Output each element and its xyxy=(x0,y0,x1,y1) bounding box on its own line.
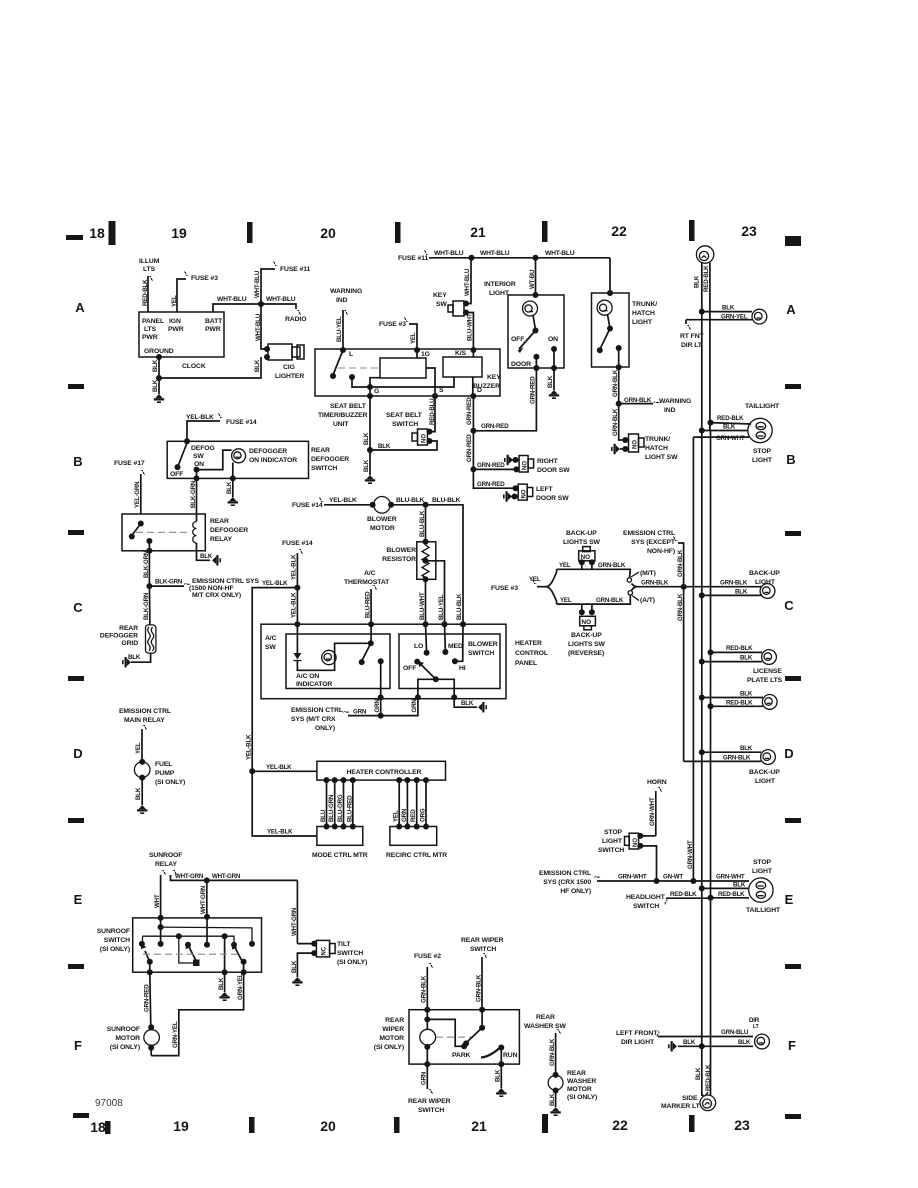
svg-text:LIGHT: LIGHT xyxy=(632,319,653,326)
svg-text:WHT-GRN: WHT-GRN xyxy=(175,873,204,880)
svg-text:(SI ONLY): (SI ONLY) xyxy=(337,959,367,966)
svg-text:DEFOG: DEFOG xyxy=(191,445,215,452)
svg-text:LIGHTS SW: LIGHTS SW xyxy=(568,641,606,648)
svg-text:HORN: HORN xyxy=(647,779,667,786)
svg-text:C: C xyxy=(73,600,83,615)
svg-text:OFF: OFF xyxy=(170,471,183,478)
svg-text:PLATE LTS: PLATE LTS xyxy=(747,677,783,684)
svg-text:LIGHT: LIGHT xyxy=(755,579,776,586)
svg-text:REAR: REAR xyxy=(210,518,229,525)
svg-text:BLK: BLK xyxy=(733,881,746,888)
svg-text:SIDE: SIDE xyxy=(682,1095,698,1102)
svg-text:LIGHT: LIGHT xyxy=(752,868,773,875)
svg-text:LIGHT SW: LIGHT SW xyxy=(645,454,678,461)
svg-text:PUMP: PUMP xyxy=(155,770,175,777)
svg-text:REAR: REAR xyxy=(567,1070,586,1077)
svg-text:SYS (CRX 1500: SYS (CRX 1500 xyxy=(543,879,591,886)
svg-text:PANEL: PANEL xyxy=(142,318,164,325)
svg-text:FUSE #3: FUSE #3 xyxy=(191,275,218,282)
svg-text:BACK-UP: BACK-UP xyxy=(566,530,597,537)
svg-text:RED-BLK: RED-BLK xyxy=(705,1064,712,1091)
svg-text:97008: 97008 xyxy=(95,1098,123,1109)
svg-text:FUSE #11: FUSE #11 xyxy=(398,255,429,262)
svg-text:RECIRC CTRL MTR: RECIRC CTRL MTR xyxy=(386,852,447,859)
svg-text:(SI ONLY): (SI ONLY) xyxy=(374,1044,404,1051)
svg-text:19: 19 xyxy=(171,225,187,241)
svg-text:RUN: RUN xyxy=(503,1052,518,1059)
svg-text:SWITCH: SWITCH xyxy=(392,421,418,428)
svg-text:L: L xyxy=(349,351,353,358)
svg-text:MAIN RELAY: MAIN RELAY xyxy=(124,717,165,724)
svg-text:YEL-GRN: YEL-GRN xyxy=(134,481,141,508)
svg-text:BLU-BLK: BLU-BLK xyxy=(456,593,463,620)
svg-text:GRN-WHT: GRN-WHT xyxy=(618,874,647,881)
svg-text:TAILLIGHT: TAILLIGHT xyxy=(745,403,780,410)
svg-text:GRN-RED: GRN-RED xyxy=(466,397,473,425)
svg-text:WASHER: WASHER xyxy=(567,1078,596,1085)
svg-text:DOOR: DOOR xyxy=(511,361,531,368)
svg-text:LIGHTER: LIGHTER xyxy=(275,373,304,380)
svg-text:IND: IND xyxy=(664,407,676,414)
svg-text:LEFT: LEFT xyxy=(536,486,554,493)
svg-text:SWITCH: SWITCH xyxy=(468,650,494,657)
svg-text:21: 21 xyxy=(470,224,486,240)
svg-text:FUSE #17: FUSE #17 xyxy=(114,460,145,467)
svg-text:STOP: STOP xyxy=(753,859,772,866)
svg-text:B: B xyxy=(786,452,795,467)
svg-text:ORG: ORG xyxy=(420,808,427,822)
svg-text:DOOR SW: DOOR SW xyxy=(537,467,570,474)
svg-text:RED-BLK: RED-BLK xyxy=(726,645,753,652)
svg-text:BLK: BLK xyxy=(695,1067,702,1080)
svg-text:BLU-YEL: BLU-YEL xyxy=(438,594,445,620)
svg-text:DOOR SW: DOOR SW xyxy=(536,495,569,502)
svg-text:NO: NO xyxy=(523,461,529,470)
svg-text:YEL: YEL xyxy=(560,597,572,604)
svg-text:B: B xyxy=(73,454,82,469)
svg-text:WHT-BLU: WHT-BLU xyxy=(254,270,261,298)
svg-text:D: D xyxy=(477,387,482,394)
svg-text:F: F xyxy=(74,1038,82,1053)
svg-text:GRN: GRN xyxy=(401,808,408,822)
svg-text:BLK: BLK xyxy=(738,1039,751,1046)
svg-text:20: 20 xyxy=(320,1118,336,1134)
svg-text:EMISSION CTRL: EMISSION CTRL xyxy=(291,707,343,714)
svg-text:HEATER: HEATER xyxy=(515,640,542,647)
svg-text:REAR: REAR xyxy=(119,625,138,632)
svg-text:MOTOR: MOTOR xyxy=(115,1035,140,1042)
svg-text:SW: SW xyxy=(436,301,447,308)
svg-text:BLK: BLK xyxy=(683,1039,696,1046)
svg-text:BLU-WHT: BLU-WHT xyxy=(467,313,474,341)
svg-text:HEADLIGHT: HEADLIGHT xyxy=(626,894,666,901)
svg-text:FUSE #14: FUSE #14 xyxy=(292,502,323,509)
svg-text:REAR WIPER: REAR WIPER xyxy=(461,937,504,944)
svg-text:GRN-YEL: GRN-YEL xyxy=(172,1021,179,1048)
svg-text:CONTROL: CONTROL xyxy=(515,650,548,657)
svg-text:KEY: KEY xyxy=(433,292,447,299)
svg-text:BLOWER: BLOWER xyxy=(367,516,397,523)
svg-text:WHT-GRN: WHT-GRN xyxy=(200,885,207,914)
svg-text:GRID: GRID xyxy=(121,640,138,647)
svg-text:BLU-BLK: BLU-BLK xyxy=(419,510,426,537)
svg-text:(SI ONLY): (SI ONLY) xyxy=(110,1044,140,1051)
svg-text:A: A xyxy=(75,300,85,315)
svg-text:BLOWER: BLOWER xyxy=(468,641,498,648)
svg-text:22: 22 xyxy=(611,223,627,239)
svg-text:RT FNT: RT FNT xyxy=(680,333,705,340)
svg-text:GRN-BLK: GRN-BLK xyxy=(677,549,684,577)
svg-text:WHT-BLU: WHT-BLU xyxy=(255,313,262,341)
svg-text:SYS (M/T CRX: SYS (M/T CRX xyxy=(291,716,336,723)
svg-text:HEATER CONTROLLER: HEATER CONTROLLER xyxy=(347,769,422,776)
svg-text:HI: HI xyxy=(459,665,466,672)
svg-text:22: 22 xyxy=(612,1117,628,1133)
svg-text:GRN-BLK: GRN-BLK xyxy=(612,369,619,397)
svg-text:FUSE #2: FUSE #2 xyxy=(414,953,441,960)
svg-text:GRN-RED: GRN-RED xyxy=(144,984,151,1012)
svg-text:WHT-GRN: WHT-GRN xyxy=(212,873,241,880)
svg-text:LIGHTS SW: LIGHTS SW xyxy=(563,539,601,546)
svg-text:BLU-ORG: BLU-ORG xyxy=(337,794,344,822)
svg-text:RELAY: RELAY xyxy=(155,861,177,868)
svg-text:IND: IND xyxy=(336,297,348,304)
svg-text:SWITCH: SWITCH xyxy=(470,946,496,953)
svg-text:GRN-BLK: GRN-BLK xyxy=(677,593,684,621)
svg-text:GN-WT: GN-WT xyxy=(663,874,683,881)
svg-text:TILT: TILT xyxy=(337,941,351,948)
svg-text:GRN-BLK: GRN-BLK xyxy=(549,1038,556,1066)
svg-text:SWITCH: SWITCH xyxy=(598,847,624,854)
svg-text:SWITCH: SWITCH xyxy=(311,465,337,472)
svg-text:D: D xyxy=(73,746,82,761)
svg-text:GRN-WHT: GRN-WHT xyxy=(716,874,745,881)
svg-text:UNIT: UNIT xyxy=(333,421,349,428)
svg-text:BLK: BLK xyxy=(135,787,142,800)
svg-text:S: S xyxy=(439,387,444,394)
svg-text:GRN-RED: GRN-RED xyxy=(530,376,537,404)
svg-text:18: 18 xyxy=(90,1119,106,1135)
svg-text:BLU-BLK: BLU-BLK xyxy=(432,497,461,504)
svg-text:YEL-BLK: YEL-BLK xyxy=(266,764,292,771)
svg-text:YEL: YEL xyxy=(410,332,417,344)
svg-text:M/T CRX ONLY): M/T CRX ONLY) xyxy=(192,592,241,599)
svg-text:BLK: BLK xyxy=(254,359,261,372)
svg-text:BLK: BLK xyxy=(128,654,141,661)
svg-text:D: D xyxy=(784,746,793,761)
svg-text:BLK: BLK xyxy=(740,691,753,698)
svg-text:THERMOSTAT: THERMOSTAT xyxy=(344,579,390,586)
svg-text:YEL: YEL xyxy=(135,742,142,754)
svg-text:YEL-BLK: YEL-BLK xyxy=(291,592,298,618)
svg-text:A/C: A/C xyxy=(265,635,277,642)
svg-text:YEL: YEL xyxy=(393,810,400,822)
svg-text:WIPER: WIPER xyxy=(382,1026,404,1033)
svg-text:SW: SW xyxy=(193,453,204,460)
svg-text:BLK: BLK xyxy=(495,1069,502,1082)
svg-text:EMISSION CTRL: EMISSION CTRL xyxy=(539,870,591,877)
svg-text:STOP: STOP xyxy=(604,829,623,836)
svg-text:OFF: OFF xyxy=(511,336,524,343)
svg-text:HATCH: HATCH xyxy=(632,310,655,317)
svg-text:DEFOGGER: DEFOGGER xyxy=(249,448,287,455)
svg-text:FUSE #14: FUSE #14 xyxy=(226,419,257,426)
svg-text:YEL-BLK: YEL-BLK xyxy=(186,414,214,421)
svg-text:BLK: BLK xyxy=(226,481,233,494)
svg-text:GRN-RED: GRN-RED xyxy=(481,423,509,430)
svg-text:WARNING: WARNING xyxy=(659,398,691,405)
svg-text:MOTOR: MOTOR xyxy=(370,525,395,532)
svg-text:RESISTOR: RESISTOR xyxy=(382,556,416,563)
svg-text:BLU-BLK: BLU-BLK xyxy=(396,497,425,504)
svg-text:SUNROOF: SUNROOF xyxy=(107,1026,140,1033)
svg-text:PWR: PWR xyxy=(168,326,184,333)
svg-text:INTERIOR: INTERIOR xyxy=(484,281,516,288)
svg-text:DEFOGGER: DEFOGGER xyxy=(311,456,349,463)
svg-text:LEFT FRONT: LEFT FRONT xyxy=(616,1030,658,1037)
svg-text:FUSE #14: FUSE #14 xyxy=(282,540,313,547)
svg-text:LT: LT xyxy=(753,1024,759,1030)
svg-text:RED: RED xyxy=(410,809,417,822)
svg-text:FUSE #3: FUSE #3 xyxy=(491,585,518,592)
svg-text:REAR: REAR xyxy=(536,1014,555,1021)
svg-text:WHT-BLU: WHT-BLU xyxy=(480,250,510,257)
svg-text:18: 18 xyxy=(89,225,105,241)
svg-text:INDICATOR: INDICATOR xyxy=(296,681,332,688)
svg-text:REAR: REAR xyxy=(311,447,330,454)
svg-text:(A/T): (A/T) xyxy=(640,597,655,604)
svg-text:WHT: WHT xyxy=(154,894,161,908)
svg-text:BLU-GRN: BLU-GRN xyxy=(328,794,335,822)
svg-text:LIGHT: LIGHT xyxy=(602,838,623,845)
svg-text:BLK: BLK xyxy=(722,305,735,312)
svg-text:BACK-UP: BACK-UP xyxy=(571,632,602,639)
svg-text:BLK: BLK xyxy=(218,977,225,990)
svg-text:ONLY): ONLY) xyxy=(315,725,335,732)
svg-text:SEAT BELT: SEAT BELT xyxy=(330,403,367,410)
svg-text:TRUNK/: TRUNK/ xyxy=(645,436,670,443)
svg-text:BATT: BATT xyxy=(205,318,223,325)
svg-text:(SI ONLY): (SI ONLY) xyxy=(567,1094,597,1101)
svg-text:YEL-BLK: YEL-BLK xyxy=(246,734,253,760)
svg-text:STOP: STOP xyxy=(753,448,772,455)
svg-text:YEL: YEL xyxy=(171,295,178,307)
svg-text:GRN: GRN xyxy=(353,709,367,716)
svg-text:A/C: A/C xyxy=(364,570,376,577)
svg-text:NO: NO xyxy=(633,440,639,449)
svg-text:GRN-BLK: GRN-BLK xyxy=(612,408,619,436)
svg-text:DIR LIGHT: DIR LIGHT xyxy=(621,1039,655,1046)
svg-text:GRN-BLK: GRN-BLK xyxy=(598,562,626,569)
svg-text:EMISSION CTRL SYS: EMISSION CTRL SYS xyxy=(192,578,259,585)
svg-text:BLK: BLK xyxy=(547,375,554,388)
svg-text:E: E xyxy=(74,892,83,907)
svg-text:YEL-BLK: YEL-BLK xyxy=(291,554,298,580)
svg-text:LICENSE: LICENSE xyxy=(753,668,782,675)
svg-text:WHT-BLU: WHT-BLU xyxy=(545,250,575,257)
svg-text:WHT-BLU: WHT-BLU xyxy=(464,268,471,296)
svg-text:FUEL: FUEL xyxy=(155,761,172,768)
svg-text:EMISSION CTRL: EMISSION CTRL xyxy=(623,530,675,537)
svg-text:RED-BLK: RED-BLK xyxy=(717,415,744,422)
svg-text:BLK: BLK xyxy=(461,700,474,707)
svg-text:BLK: BLK xyxy=(152,359,159,372)
svg-text:21: 21 xyxy=(471,1118,487,1134)
svg-text:RED-BLK: RED-BLK xyxy=(142,279,149,306)
svg-text:WARNING: WARNING xyxy=(330,288,362,295)
svg-text:DEFOGGER: DEFOGGER xyxy=(100,633,138,640)
svg-text:OFF: OFF xyxy=(403,665,416,672)
svg-text:LIGHT: LIGHT xyxy=(489,290,510,297)
svg-text:LIGHT: LIGHT xyxy=(752,457,773,464)
svg-text:MED: MED xyxy=(448,643,463,650)
svg-text:BLK-GRN: BLK-GRN xyxy=(155,579,183,586)
svg-text:TRUNK/: TRUNK/ xyxy=(632,301,657,308)
svg-text:MARKER LT: MARKER LT xyxy=(661,1103,701,1110)
svg-text:ON INDICATOR: ON INDICATOR xyxy=(249,457,297,464)
svg-text:GROUND: GROUND xyxy=(144,348,174,355)
svg-text:GRN-BLK: GRN-BLK xyxy=(723,754,751,761)
svg-text:23: 23 xyxy=(741,223,757,239)
svg-text:KEY: KEY xyxy=(487,374,501,381)
svg-text:TIMER/BUZZER: TIMER/BUZZER xyxy=(318,412,368,419)
svg-text:BLK-GRN: BLK-GRN xyxy=(143,550,150,578)
svg-text:BLK: BLK xyxy=(740,655,753,662)
svg-text:GRN-BLK: GRN-BLK xyxy=(641,580,669,587)
svg-text:(1500 NON-HF: (1500 NON-HF xyxy=(189,585,234,592)
svg-text:GRN: GRN xyxy=(421,1071,428,1085)
svg-text:(SI ONLY): (SI ONLY) xyxy=(155,779,185,786)
svg-text:RADIO: RADIO xyxy=(285,316,306,323)
svg-text:FUSE #11: FUSE #11 xyxy=(280,266,311,273)
svg-text:SWITCH: SWITCH xyxy=(418,1107,444,1114)
svg-text:PANEL: PANEL xyxy=(515,660,537,667)
svg-text:YEL-BLK: YEL-BLK xyxy=(267,829,293,836)
svg-text:BLU-RED: BLU-RED xyxy=(365,591,372,618)
svg-text:RED-BLK: RED-BLK xyxy=(670,891,697,898)
svg-text:BACK-UP: BACK-UP xyxy=(749,570,780,577)
svg-text:GRN-BLK: GRN-BLK xyxy=(624,397,652,404)
svg-text:GRN-BLU: GRN-BLU xyxy=(721,1029,749,1036)
svg-text:BLU: BLU xyxy=(320,809,327,822)
svg-text:GRN: GRN xyxy=(374,699,381,713)
svg-text:1G: 1G xyxy=(421,351,430,358)
svg-text:GRN-WHT: GRN-WHT xyxy=(649,797,656,826)
svg-text:GRN-YEL: GRN-YEL xyxy=(721,314,748,321)
svg-text:RELAY: RELAY xyxy=(210,536,232,543)
svg-text:RIGHT: RIGHT xyxy=(537,458,559,465)
svg-text:ON: ON xyxy=(548,336,558,343)
svg-text:DIR LT: DIR LT xyxy=(681,342,703,349)
svg-text:GRN-WHT: GRN-WHT xyxy=(716,435,745,442)
svg-text:HF ONLY): HF ONLY) xyxy=(560,888,591,895)
svg-text:NO: NO xyxy=(522,489,528,498)
svg-text:YEL-BLK: YEL-BLK xyxy=(329,497,357,504)
svg-text:BLK: BLK xyxy=(735,589,748,596)
svg-text:CLOCK: CLOCK xyxy=(182,363,206,370)
svg-text:YEL-BLK: YEL-BLK xyxy=(262,580,288,587)
svg-text:BLOWER: BLOWER xyxy=(386,547,416,554)
svg-text:MOTOR: MOTOR xyxy=(567,1086,592,1093)
svg-text:GRN-RED: GRN-RED xyxy=(466,434,473,462)
svg-text:(REVERSE): (REVERSE) xyxy=(568,650,604,657)
svg-text:DEFOGGER: DEFOGGER xyxy=(210,527,248,534)
svg-text:WHT-BLU: WHT-BLU xyxy=(266,296,296,303)
svg-text:E: E xyxy=(785,892,794,907)
svg-text:(SI ONLY): (SI ONLY) xyxy=(100,946,130,953)
svg-text:NON-HF): NON-HF) xyxy=(647,548,675,555)
svg-text:GRN-RED: GRN-RED xyxy=(477,462,505,469)
svg-text:BLK: BLK xyxy=(694,275,701,288)
svg-text:NC: NC xyxy=(322,946,328,955)
svg-text:TAILLIGHT: TAILLIGHT xyxy=(746,907,781,914)
svg-text:SEAT BELT: SEAT BELT xyxy=(386,412,423,419)
svg-text:GRN-BLK: GRN-BLK xyxy=(476,974,483,1002)
svg-text:RED-BLK: RED-BLK xyxy=(726,699,753,706)
svg-text:(M/T): (M/T) xyxy=(640,570,656,577)
svg-text:GRN: GRN xyxy=(411,699,418,713)
svg-text:BLK: BLK xyxy=(549,1093,556,1106)
svg-text:WHT-BLU: WHT-BLU xyxy=(217,296,247,303)
svg-text:RED-BLK: RED-BLK xyxy=(703,265,710,292)
svg-text:C: C xyxy=(784,598,794,613)
svg-text:GRN-YEL: GRN-YEL xyxy=(237,973,244,1000)
svg-text:BLU-RED: BLU-RED xyxy=(346,795,353,822)
svg-text:GRN-BLK: GRN-BLK xyxy=(720,580,748,587)
svg-text:YEL: YEL xyxy=(559,562,571,569)
svg-text:LIGHT: LIGHT xyxy=(755,778,776,785)
svg-text:WASHER SW: WASHER SW xyxy=(524,1023,566,1030)
svg-text:ILLUM: ILLUM xyxy=(139,258,160,265)
svg-text:BLK: BLK xyxy=(291,960,298,973)
svg-text:23: 23 xyxy=(734,1117,750,1133)
svg-text:BLK: BLK xyxy=(723,424,736,431)
svg-text:BACK-UP: BACK-UP xyxy=(749,769,780,776)
svg-text:BLK: BLK xyxy=(200,553,213,560)
svg-text:MOTOR: MOTOR xyxy=(379,1035,404,1042)
svg-text:WT-BU: WT-BU xyxy=(529,269,536,289)
svg-text:20: 20 xyxy=(320,225,336,241)
svg-text:SUNROOF: SUNROOF xyxy=(149,852,182,859)
svg-text:SW: SW xyxy=(265,644,276,651)
svg-text:BLK: BLK xyxy=(152,379,159,392)
svg-text:IGN: IGN xyxy=(169,318,181,325)
svg-text:HATCH: HATCH xyxy=(645,445,668,452)
svg-text:BLU-YEL: BLU-YEL xyxy=(336,316,343,342)
svg-text:19: 19 xyxy=(173,1118,189,1134)
svg-text:CIG: CIG xyxy=(283,364,295,371)
svg-text:SWITCH: SWITCH xyxy=(337,950,363,957)
svg-text:BLU-WHT: BLU-WHT xyxy=(419,592,426,620)
svg-text:LTS: LTS xyxy=(143,266,156,273)
svg-text:K/S: K/S xyxy=(455,350,467,357)
svg-text:BLK-GRN: BLK-GRN xyxy=(143,592,150,620)
svg-text:SUNROOF: SUNROOF xyxy=(97,928,130,935)
svg-text:YEL: YEL xyxy=(529,576,541,583)
svg-text:GRN-BLK: GRN-BLK xyxy=(421,975,428,1003)
svg-text:F: F xyxy=(788,1038,796,1053)
svg-text:FUSE #3: FUSE #3 xyxy=(379,321,406,328)
svg-text:LO: LO xyxy=(414,643,423,650)
svg-text:REAR WIPER: REAR WIPER xyxy=(408,1098,451,1105)
svg-text:WHT-GRN: WHT-GRN xyxy=(291,907,298,936)
svg-text:DIR: DIR xyxy=(749,1017,760,1024)
svg-text:EMISSION CTRL: EMISSION CTRL xyxy=(119,708,171,715)
svg-text:PWR: PWR xyxy=(205,326,221,333)
svg-text:MODE CTRL MTR: MODE CTRL MTR xyxy=(312,852,368,859)
svg-text:REAR: REAR xyxy=(385,1017,404,1024)
svg-text:PWR: PWR xyxy=(142,334,158,341)
